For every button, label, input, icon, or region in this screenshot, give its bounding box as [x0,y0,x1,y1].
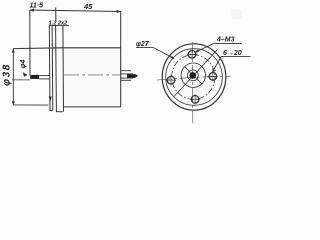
svg-text:φ27: φ27 [136,41,150,48]
motor body circle behind flange [166,49,223,106]
svg-text:6→20: 6→20 [223,50,242,57]
svg-text:45: 45 [83,2,93,11]
body centerline dash-dot [64,74,121,76]
phi38 label rotated [2,63,13,86]
4-M3 leader [195,43,214,52]
hub short diagonal NW-SE [185,67,203,85]
flange plate line 2 [51,26,54,111]
extension line right of 45 dim [120,11,122,48]
bolt circle dash-dot [172,55,215,100]
hole W [167,76,175,84]
motor body bottom edge [63,106,121,108]
flange plate line 1 [49,26,52,111]
svg-text:φ4: φ4 [20,60,27,69]
outer flange circle [162,44,226,110]
rear stub inner bottom line [121,77,133,79]
phi27 underline [136,47,154,49]
faint scan tone inside flange [163,46,225,108]
hub center filled [190,72,197,79]
phi38 dimension line [12,49,14,105]
svg-text:11·5: 11·5 [30,3,44,10]
shaft top line [39,75,50,77]
paper background [0,0,252,127]
motor body top edge [13,47,121,50]
hole E [209,73,217,81]
phi38 top arrowhead [12,49,15,53]
rear stub outer top [121,70,131,72]
extension line from shaft tip up to dim line [29,10,31,75]
phi38 bottom arrowhead [12,102,15,106]
6-20 arrowhead [213,68,216,72]
svg-text:φ38: φ38 [2,63,13,86]
4-M3 underline [214,42,242,44]
rear stub inner top line [121,73,133,75]
horizontal centerline [157,76,231,80]
dim tick at x=55.7 [55,8,57,22]
dim arrowhead left [30,9,34,12]
flange plate line 3 [56,26,63,112]
faint sticker square top right [232,10,243,20]
phi4 leader arrowhead [23,73,27,77]
faint scan tone inside body [64,49,121,107]
underline of 2x2 label [49,24,69,26]
phi27 arrowhead [170,56,174,59]
shaft bottom line [39,78,50,80]
motor body right edge [120,48,122,107]
vertical centerline [191,42,194,123]
phi38 bottom extension line [13,104,49,106]
flange plate line 4 / body left edge [62,25,65,112]
4-M3 arrowhead [195,50,199,53]
rear stub dark end [127,74,135,78]
shaft centerline extension left [12,79,30,81]
shaft thick section [30,75,39,79]
hub inner circle [188,70,199,81]
hub outer circle [181,63,205,87]
dim arrowhead right [117,10,121,13]
6-20 underline [221,56,251,58]
hole N [188,51,196,59]
phi27 leader [154,48,175,59]
6-20 leader [213,57,221,72]
top dimension line [30,10,121,12]
phi4 label rotated [20,60,27,69]
diagonal centerline [174,50,218,97]
rear stub tip [135,74,138,77]
svg-text:4–M3: 4–M3 [216,37,235,44]
hole S [191,96,199,104]
rear stub outer bottom [121,79,131,81]
ink blob on plate 1 [49,96,52,102]
